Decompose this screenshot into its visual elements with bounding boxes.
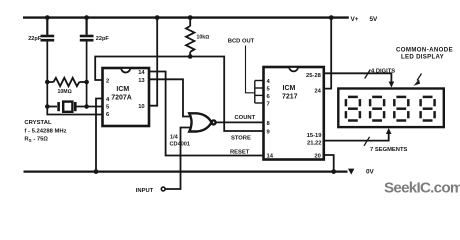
- bus slash 7 segments: [364, 137, 370, 146]
- wire U2 pins25-28 to display (4 digits bus): [324, 73, 392, 83]
- node junction R1 right: [84, 80, 89, 85]
- node junction top rail / pin10 drop: [155, 15, 160, 20]
- svg-text:24: 24: [314, 88, 321, 94]
- wire U2 pin24 to V+ rail: [324, 18, 331, 89]
- svg-text:0V: 0V: [366, 169, 375, 176]
- display digit 8 (4): [421, 97, 435, 121]
- svg-text:RESET: RESET: [230, 150, 250, 156]
- svg-text:STORE: STORE: [231, 136, 251, 142]
- svg-text:COMMON-ANODE: COMMON-ANODE: [396, 46, 453, 53]
- wire NOR output to U2 COUNT: [216, 121, 264, 123]
- gate U3 quarter CD4001 NOR: [189, 113, 215, 131]
- svg-text:7217: 7217: [282, 94, 298, 101]
- label U1 pin numbers: [106, 70, 145, 118]
- svg-text:LED DISPLAY: LED DISPLAY: [401, 53, 444, 60]
- label 0V: [366, 169, 375, 176]
- display digit 8 (3): [394, 97, 408, 121]
- svg-text:4 DIGITS: 4 DIGITS: [371, 68, 395, 74]
- svg-text:4: 4: [106, 97, 110, 103]
- svg-text:7 SEGMENTS: 7 SEGMENTS: [370, 147, 407, 153]
- svg-text:10kΩ: 10kΩ: [197, 35, 210, 41]
- wire U2 pins15-19,21,22 to display (7 segments bus): [324, 133, 389, 141]
- node junction bottom rail / pin4 ground: [94, 169, 99, 174]
- node junction bottom rail / pin20: [331, 169, 336, 174]
- wire BCD OUT line to pin bus: [246, 46, 255, 93]
- node junction crystal right: [84, 104, 89, 109]
- wire V+ top rail: [23, 16, 349, 18]
- svg-text:SeekIC.com: SeekIC.com: [384, 180, 460, 197]
- svg-text:INPUT: INPUT: [136, 188, 154, 194]
- label RESET: [230, 150, 250, 156]
- node junction crystal left: [45, 104, 50, 109]
- svg-text:10MΩ: 10MΩ: [58, 89, 72, 95]
- node junction R1 left: [45, 80, 50, 85]
- svg-text:7: 7: [267, 101, 270, 107]
- svg-text:14: 14: [267, 153, 274, 159]
- svg-text:7207A: 7207A: [111, 95, 132, 102]
- svg-text:CRYSTAL: CRYSTAL: [24, 120, 52, 126]
- label COUNT: [235, 115, 256, 121]
- label COMMON-ANODE LED DISPLAY: [396, 46, 453, 60]
- display DS1 common-anode LED module: [338, 89, 444, 128]
- svg-text:21,22: 21,22: [307, 140, 322, 146]
- node junction top rail / R2 10k: [188, 15, 193, 20]
- svg-text:2: 2: [106, 79, 109, 85]
- label U1 name: [111, 86, 132, 102]
- node junction top rail / C2: [84, 15, 89, 20]
- arrow 7-segments into display bottom: [386, 128, 392, 134]
- arrow from label to display: [417, 74, 422, 81]
- capacitor C1 22pF: [41, 18, 55, 116]
- wire U2 pin20 to ground rail: [324, 155, 334, 172]
- svg-text:8: 8: [267, 121, 271, 127]
- display digit 8 (1): [346, 97, 360, 121]
- svg-text:1/4: 1/4: [170, 135, 179, 141]
- wire INPUT terminal to NOR bottom input: [166, 128, 190, 190]
- label C2 22pF: [96, 36, 110, 42]
- svg-text:RS - 75Ω: RS - 75Ω: [24, 137, 48, 143]
- svg-text:5: 5: [106, 105, 110, 111]
- label U3 1/4 CD4001: [170, 135, 191, 148]
- label R1 10M: [58, 89, 72, 95]
- resistor R2 10k: [186, 18, 194, 57]
- label U2 pin numbers: [267, 73, 323, 159]
- watermark SeekIC.com: [384, 180, 460, 197]
- svg-text:22pF: 22pF: [28, 36, 42, 42]
- wire U1 pin2 up and over to STORE (with 10k tap): [95, 57, 263, 132]
- wire 0V bottom rail: [24, 170, 348, 172]
- svg-text:20: 20: [314, 153, 320, 159]
- label STORE: [231, 136, 251, 142]
- label R2 10k: [197, 35, 210, 41]
- svg-text:22pF: 22pF: [96, 36, 110, 42]
- wire U1 pin13 to NOR gate top input: [149, 79, 190, 116]
- arrow 4-digits into display top: [389, 82, 395, 88]
- svg-text:5: 5: [267, 87, 271, 93]
- label 7 SEGMENTS: [370, 147, 407, 153]
- label BCD OUT: [228, 39, 255, 45]
- svg-text:V+: V+: [351, 16, 359, 23]
- wire U1 pin4 to ground rail: [96, 99, 103, 172]
- label U2 name: [282, 85, 298, 101]
- svg-text:ICM: ICM: [116, 86, 129, 93]
- wire U2 BCD pin bus 4,5,6,7: [255, 81, 264, 104]
- wire V+ rail to U1 pin10: [149, 18, 157, 106]
- svg-text:14: 14: [138, 70, 145, 76]
- svg-text:5V: 5V: [370, 16, 379, 23]
- terminal INPUT: [161, 187, 165, 191]
- svg-text:25-28: 25-28: [306, 73, 322, 79]
- svg-text:6: 6: [106, 112, 110, 118]
- node junction R2 bottom: [188, 54, 193, 59]
- capacitor C2 22pF: [80, 18, 94, 107]
- node junction top rail / pin24 drop: [329, 15, 334, 20]
- wire U1 pin6 to crystal-left node: [47, 114, 102, 116]
- svg-text:COUNT: COUNT: [235, 115, 256, 121]
- label V+ 5V: [351, 16, 379, 23]
- svg-text:9: 9: [267, 129, 271, 135]
- label C1 22pF: [28, 36, 42, 42]
- svg-text:BCD OUT: BCD OUT: [228, 39, 255, 45]
- resistor R1 10M: [47, 78, 86, 86]
- bus slash 4 digits: [365, 70, 371, 79]
- label crystal specs: [24, 120, 66, 143]
- wire U1 pin14 to U2 RESET: [149, 72, 264, 156]
- node junction top rail / C1: [45, 15, 50, 20]
- ground 0V terminal arrow: [348, 169, 354, 175]
- label INPUT: [136, 188, 154, 194]
- crystal Y1: [47, 102, 102, 112]
- label 4 DIGITS: [371, 68, 395, 74]
- svg-text:15-19: 15-19: [307, 133, 323, 139]
- IC U2 ICM7217: [264, 67, 324, 160]
- svg-text:13: 13: [138, 78, 145, 84]
- svg-text:ICM: ICM: [283, 85, 296, 92]
- svg-text:10: 10: [138, 104, 144, 110]
- svg-text:4: 4: [267, 79, 271, 85]
- svg-text:6: 6: [267, 94, 271, 100]
- display digit 8 (2): [370, 97, 384, 121]
- svg-text:f - 5.24288 MHz: f - 5.24288 MHz: [24, 128, 66, 134]
- IC U1 ICM7207A: [103, 68, 150, 126]
